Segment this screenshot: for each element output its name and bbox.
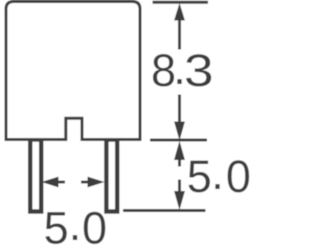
svg-text:.: . xyxy=(211,148,224,199)
body height dimension bottom arrow (down) xyxy=(174,95,185,141)
extension line at body bottom xyxy=(150,139,207,142)
lead pitch value 5.0 xyxy=(44,199,107,250)
extension line at lead ends xyxy=(123,209,206,212)
svg-text:3: 3 xyxy=(184,46,214,96)
svg-text:.: . xyxy=(69,199,82,250)
svg-text:5: 5 xyxy=(44,202,69,250)
lead pitch dimension right arrow xyxy=(81,177,105,188)
body height dimension top arrow (up) xyxy=(174,3,185,50)
lead pitch dimension left arrow xyxy=(42,177,66,188)
svg-text:5: 5 xyxy=(187,151,212,202)
extension line at body top xyxy=(153,1,209,4)
body height value 8.3 xyxy=(151,43,214,96)
lead length value 5.0 xyxy=(187,148,251,202)
lead pin 1 (left) xyxy=(30,140,41,212)
svg-text:0: 0 xyxy=(82,202,107,250)
capacitor body outline with bottom keying notch xyxy=(6,2,140,140)
lead length dimension bottom arrow (down) xyxy=(174,180,185,211)
lead pin 2 (right) xyxy=(106,140,117,212)
svg-text:0: 0 xyxy=(226,151,250,202)
lead length dimension top arrow (up) xyxy=(174,141,185,167)
